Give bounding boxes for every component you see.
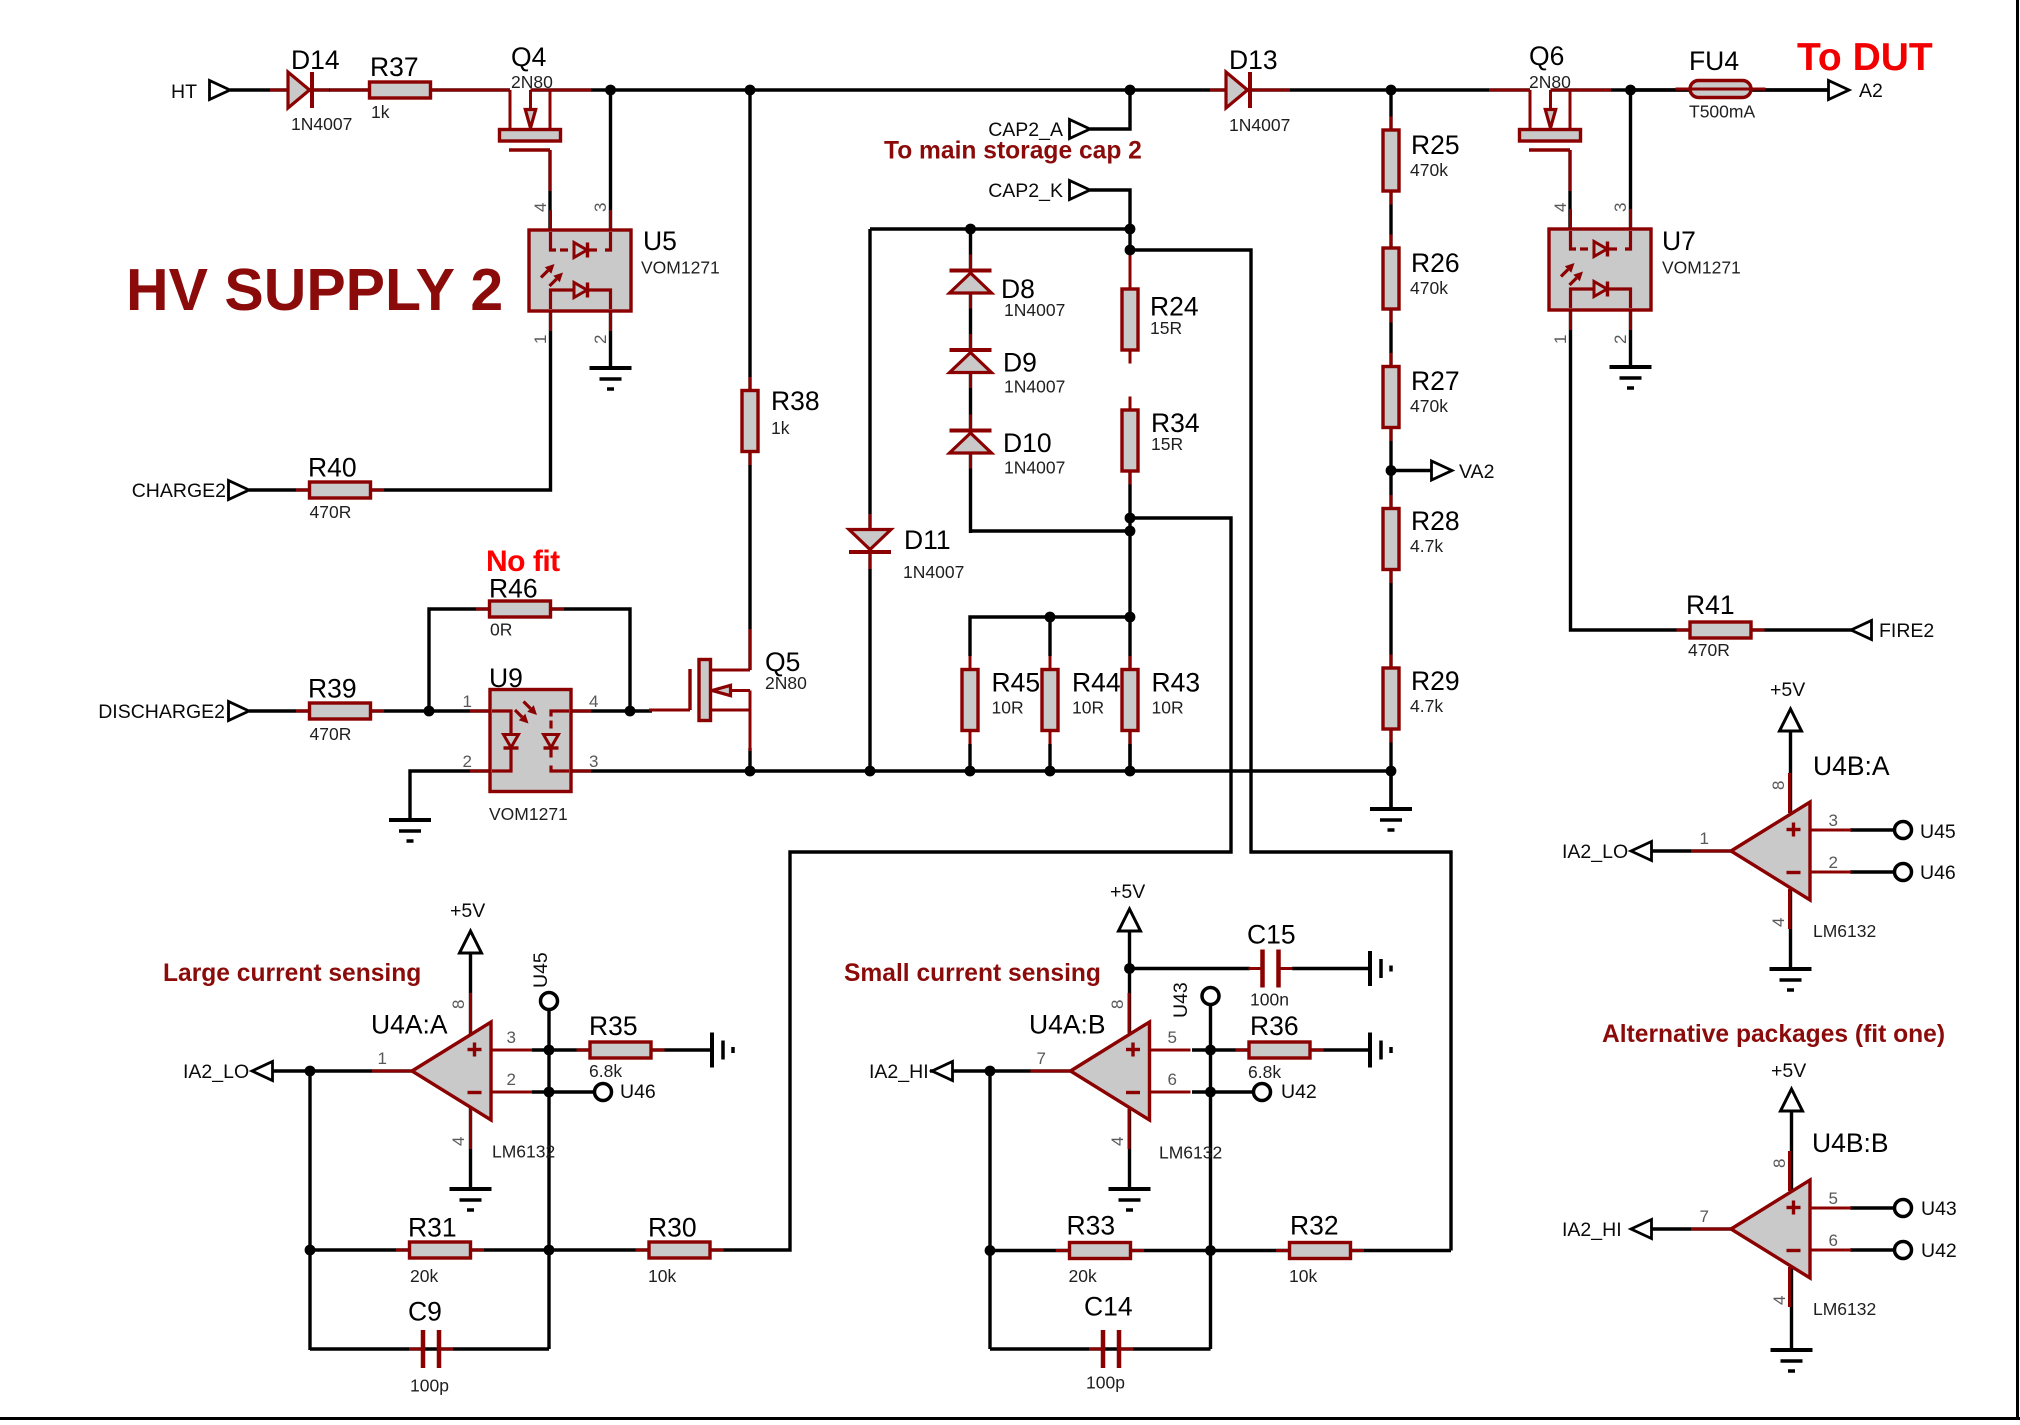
svg-text:1k: 1k	[371, 102, 390, 122]
svg-text:6.8k: 6.8k	[589, 1061, 622, 1081]
svg-text:1N4007: 1N4007	[1004, 377, 1065, 397]
svg-text:U4B:B: U4B:B	[1812, 1128, 1889, 1158]
svg-text:D14: D14	[291, 45, 340, 75]
svg-text:2: 2	[507, 1070, 516, 1089]
svg-text:CAP2_K: CAP2_K	[988, 180, 1063, 202]
svg-text:4.7k: 4.7k	[1410, 696, 1443, 716]
svg-text:VOM1271: VOM1271	[1662, 258, 1741, 278]
svg-text:D9: D9	[1003, 348, 1037, 378]
svg-text:3: 3	[589, 752, 598, 771]
svg-text:R37: R37	[370, 52, 419, 82]
svg-text:2N80: 2N80	[765, 673, 807, 693]
svg-text:VOM1271: VOM1271	[489, 804, 568, 824]
svg-text:8: 8	[1769, 781, 1788, 790]
svg-text:C14: C14	[1084, 1292, 1133, 1322]
svg-text:1N4007: 1N4007	[1004, 458, 1065, 478]
svg-text:+5V: +5V	[450, 900, 485, 922]
svg-text:U4A:B: U4A:B	[1029, 1010, 1106, 1040]
svg-text:Small current sensing: Small current sensing	[844, 960, 1101, 987]
svg-text:R24: R24	[1150, 292, 1199, 322]
svg-text:U42: U42	[1921, 1240, 1957, 1262]
svg-text:6: 6	[1168, 1070, 1177, 1089]
svg-text:4: 4	[589, 692, 598, 711]
svg-text:5: 5	[1168, 1028, 1177, 1047]
svg-text:470R: 470R	[310, 724, 352, 744]
svg-text:C15: C15	[1247, 920, 1296, 950]
svg-text:U42: U42	[1281, 1081, 1317, 1103]
svg-text:2: 2	[1829, 853, 1838, 872]
svg-text:To main storage cap 2: To main storage cap 2	[884, 138, 1142, 165]
svg-text:100p: 100p	[410, 1376, 449, 1396]
svg-text:Q4: Q4	[511, 42, 546, 72]
svg-text:2: 2	[463, 752, 472, 771]
svg-text:5: 5	[1829, 1189, 1838, 1208]
svg-text:HT: HT	[171, 81, 197, 103]
svg-text:470k: 470k	[1410, 160, 1448, 180]
svg-text:0R: 0R	[490, 620, 512, 640]
svg-text:2: 2	[1611, 335, 1630, 344]
svg-text:Q6: Q6	[1529, 41, 1564, 71]
svg-text:U45: U45	[1920, 821, 1956, 843]
svg-text:4: 4	[1769, 918, 1788, 927]
svg-text:R26: R26	[1411, 248, 1460, 278]
svg-text:10k: 10k	[648, 1266, 676, 1286]
svg-text:100p: 100p	[1086, 1373, 1125, 1393]
svg-text:DISCHARGE2: DISCHARGE2	[98, 701, 225, 723]
svg-text:470k: 470k	[1410, 278, 1448, 298]
svg-text:R44: R44	[1072, 668, 1121, 698]
svg-text:CHARGE2: CHARGE2	[132, 480, 226, 502]
svg-text:4: 4	[1551, 203, 1570, 212]
svg-text:U43: U43	[1170, 982, 1192, 1018]
svg-text:2N80: 2N80	[511, 72, 553, 92]
svg-text:1: 1	[463, 692, 472, 711]
svg-text:100n: 100n	[1250, 990, 1289, 1010]
svg-text:1N4007: 1N4007	[291, 114, 352, 134]
svg-text:U46: U46	[1920, 862, 1956, 884]
svg-text:R35: R35	[589, 1011, 638, 1041]
svg-text:U4B:A: U4B:A	[1813, 751, 1890, 781]
svg-text:1N4007: 1N4007	[903, 562, 964, 582]
svg-text:470k: 470k	[1410, 396, 1448, 416]
svg-text:15R: 15R	[1151, 434, 1183, 454]
svg-text:3: 3	[1829, 811, 1838, 830]
svg-text:2N80: 2N80	[1529, 72, 1571, 92]
svg-text:8: 8	[1108, 1000, 1127, 1009]
svg-text:R27: R27	[1411, 366, 1460, 396]
svg-text:10R: 10R	[1072, 698, 1104, 718]
svg-text:8: 8	[449, 1000, 468, 1009]
svg-text:Large current sensing: Large current sensing	[163, 960, 421, 987]
svg-text:To DUT: To DUT	[1797, 36, 1933, 79]
svg-text:U45: U45	[530, 952, 552, 988]
svg-text:1: 1	[1700, 829, 1709, 848]
svg-text:D11: D11	[904, 525, 951, 555]
svg-text:R36: R36	[1250, 1011, 1299, 1041]
svg-text:D10: D10	[1003, 428, 1052, 458]
svg-text:R41: R41	[1686, 590, 1735, 620]
svg-text:10k: 10k	[1289, 1266, 1317, 1286]
svg-text:Alternative packages (fit one): Alternative packages (fit one)	[1602, 1021, 1945, 1048]
svg-text:R28: R28	[1411, 506, 1460, 536]
svg-text:20k: 20k	[1069, 1266, 1097, 1286]
svg-text:R39: R39	[308, 674, 357, 704]
svg-text:+5V: +5V	[1110, 881, 1145, 903]
svg-text:R33: R33	[1067, 1211, 1116, 1241]
svg-text:1: 1	[531, 335, 550, 344]
svg-text:4: 4	[1108, 1137, 1127, 1146]
svg-text:U43: U43	[1921, 1198, 1957, 1220]
svg-text:4.7k: 4.7k	[1410, 536, 1443, 556]
svg-text:LM6132: LM6132	[1159, 1143, 1222, 1163]
svg-text:+5V: +5V	[1771, 1060, 1806, 1082]
svg-text:20k: 20k	[410, 1266, 438, 1286]
svg-text:IA2_LO: IA2_LO	[1562, 841, 1628, 863]
svg-text:LM6132: LM6132	[1813, 1299, 1876, 1319]
svg-text:1: 1	[378, 1049, 387, 1068]
svg-text:1k: 1k	[771, 418, 790, 438]
svg-text:1N4007: 1N4007	[1229, 115, 1290, 135]
svg-text:FU4: FU4	[1689, 46, 1739, 76]
svg-text:10R: 10R	[1152, 698, 1184, 718]
svg-text:U4A:A: U4A:A	[371, 1010, 448, 1040]
svg-text:VOM1271: VOM1271	[641, 258, 720, 278]
svg-text:15R: 15R	[1150, 318, 1182, 338]
svg-text:4: 4	[1770, 1296, 1789, 1305]
svg-text:R29: R29	[1411, 666, 1460, 696]
svg-text:U46: U46	[620, 1081, 656, 1103]
svg-text:C9: C9	[408, 1297, 442, 1327]
svg-text:4: 4	[449, 1137, 468, 1146]
svg-text:FIRE2: FIRE2	[1879, 620, 1934, 642]
svg-text:R32: R32	[1290, 1211, 1339, 1241]
svg-text:IA2_LO: IA2_LO	[183, 1061, 249, 1083]
svg-text:LM6132: LM6132	[492, 1142, 555, 1162]
svg-text:6: 6	[1829, 1231, 1838, 1250]
svg-text:LM6132: LM6132	[1813, 921, 1876, 941]
svg-text:R43: R43	[1152, 668, 1201, 698]
svg-text:1: 1	[1551, 335, 1570, 344]
svg-text:1N4007: 1N4007	[1004, 300, 1065, 320]
svg-text:CAP2_A: CAP2_A	[988, 119, 1063, 141]
svg-text:T500mA: T500mA	[1689, 102, 1755, 122]
svg-text:U7: U7	[1662, 226, 1696, 256]
svg-text:IA2_HI: IA2_HI	[1562, 1219, 1622, 1241]
svg-text:4: 4	[531, 203, 550, 212]
svg-text:R25: R25	[1411, 130, 1460, 160]
svg-text:8: 8	[1770, 1159, 1789, 1168]
svg-text:R46: R46	[489, 574, 538, 604]
svg-text:R45: R45	[992, 668, 1041, 698]
svg-text:3: 3	[1611, 203, 1630, 212]
svg-text:3: 3	[507, 1028, 516, 1047]
svg-text:470R: 470R	[1688, 640, 1730, 660]
svg-text:U5: U5	[643, 226, 677, 256]
svg-text:2: 2	[591, 335, 610, 344]
svg-text:IA2_HI: IA2_HI	[869, 1061, 929, 1083]
svg-text:470R: 470R	[310, 502, 352, 522]
svg-text:+5V: +5V	[1770, 679, 1805, 701]
svg-text:R38: R38	[771, 386, 820, 416]
svg-text:6.8k: 6.8k	[1248, 1062, 1281, 1082]
svg-text:VA2: VA2	[1459, 461, 1494, 483]
svg-text:R40: R40	[308, 453, 357, 483]
svg-text:10R: 10R	[992, 698, 1024, 718]
svg-text:A2: A2	[1859, 80, 1883, 102]
svg-text:U9: U9	[489, 663, 523, 693]
svg-text:D13: D13	[1229, 45, 1278, 75]
svg-text:7: 7	[1700, 1207, 1709, 1226]
svg-text:7: 7	[1037, 1049, 1046, 1068]
svg-text:3: 3	[591, 203, 610, 212]
svg-text:HV SUPPLY 2: HV SUPPLY 2	[126, 257, 503, 323]
svg-text:R31: R31	[408, 1213, 457, 1243]
svg-text:R30: R30	[648, 1213, 697, 1243]
